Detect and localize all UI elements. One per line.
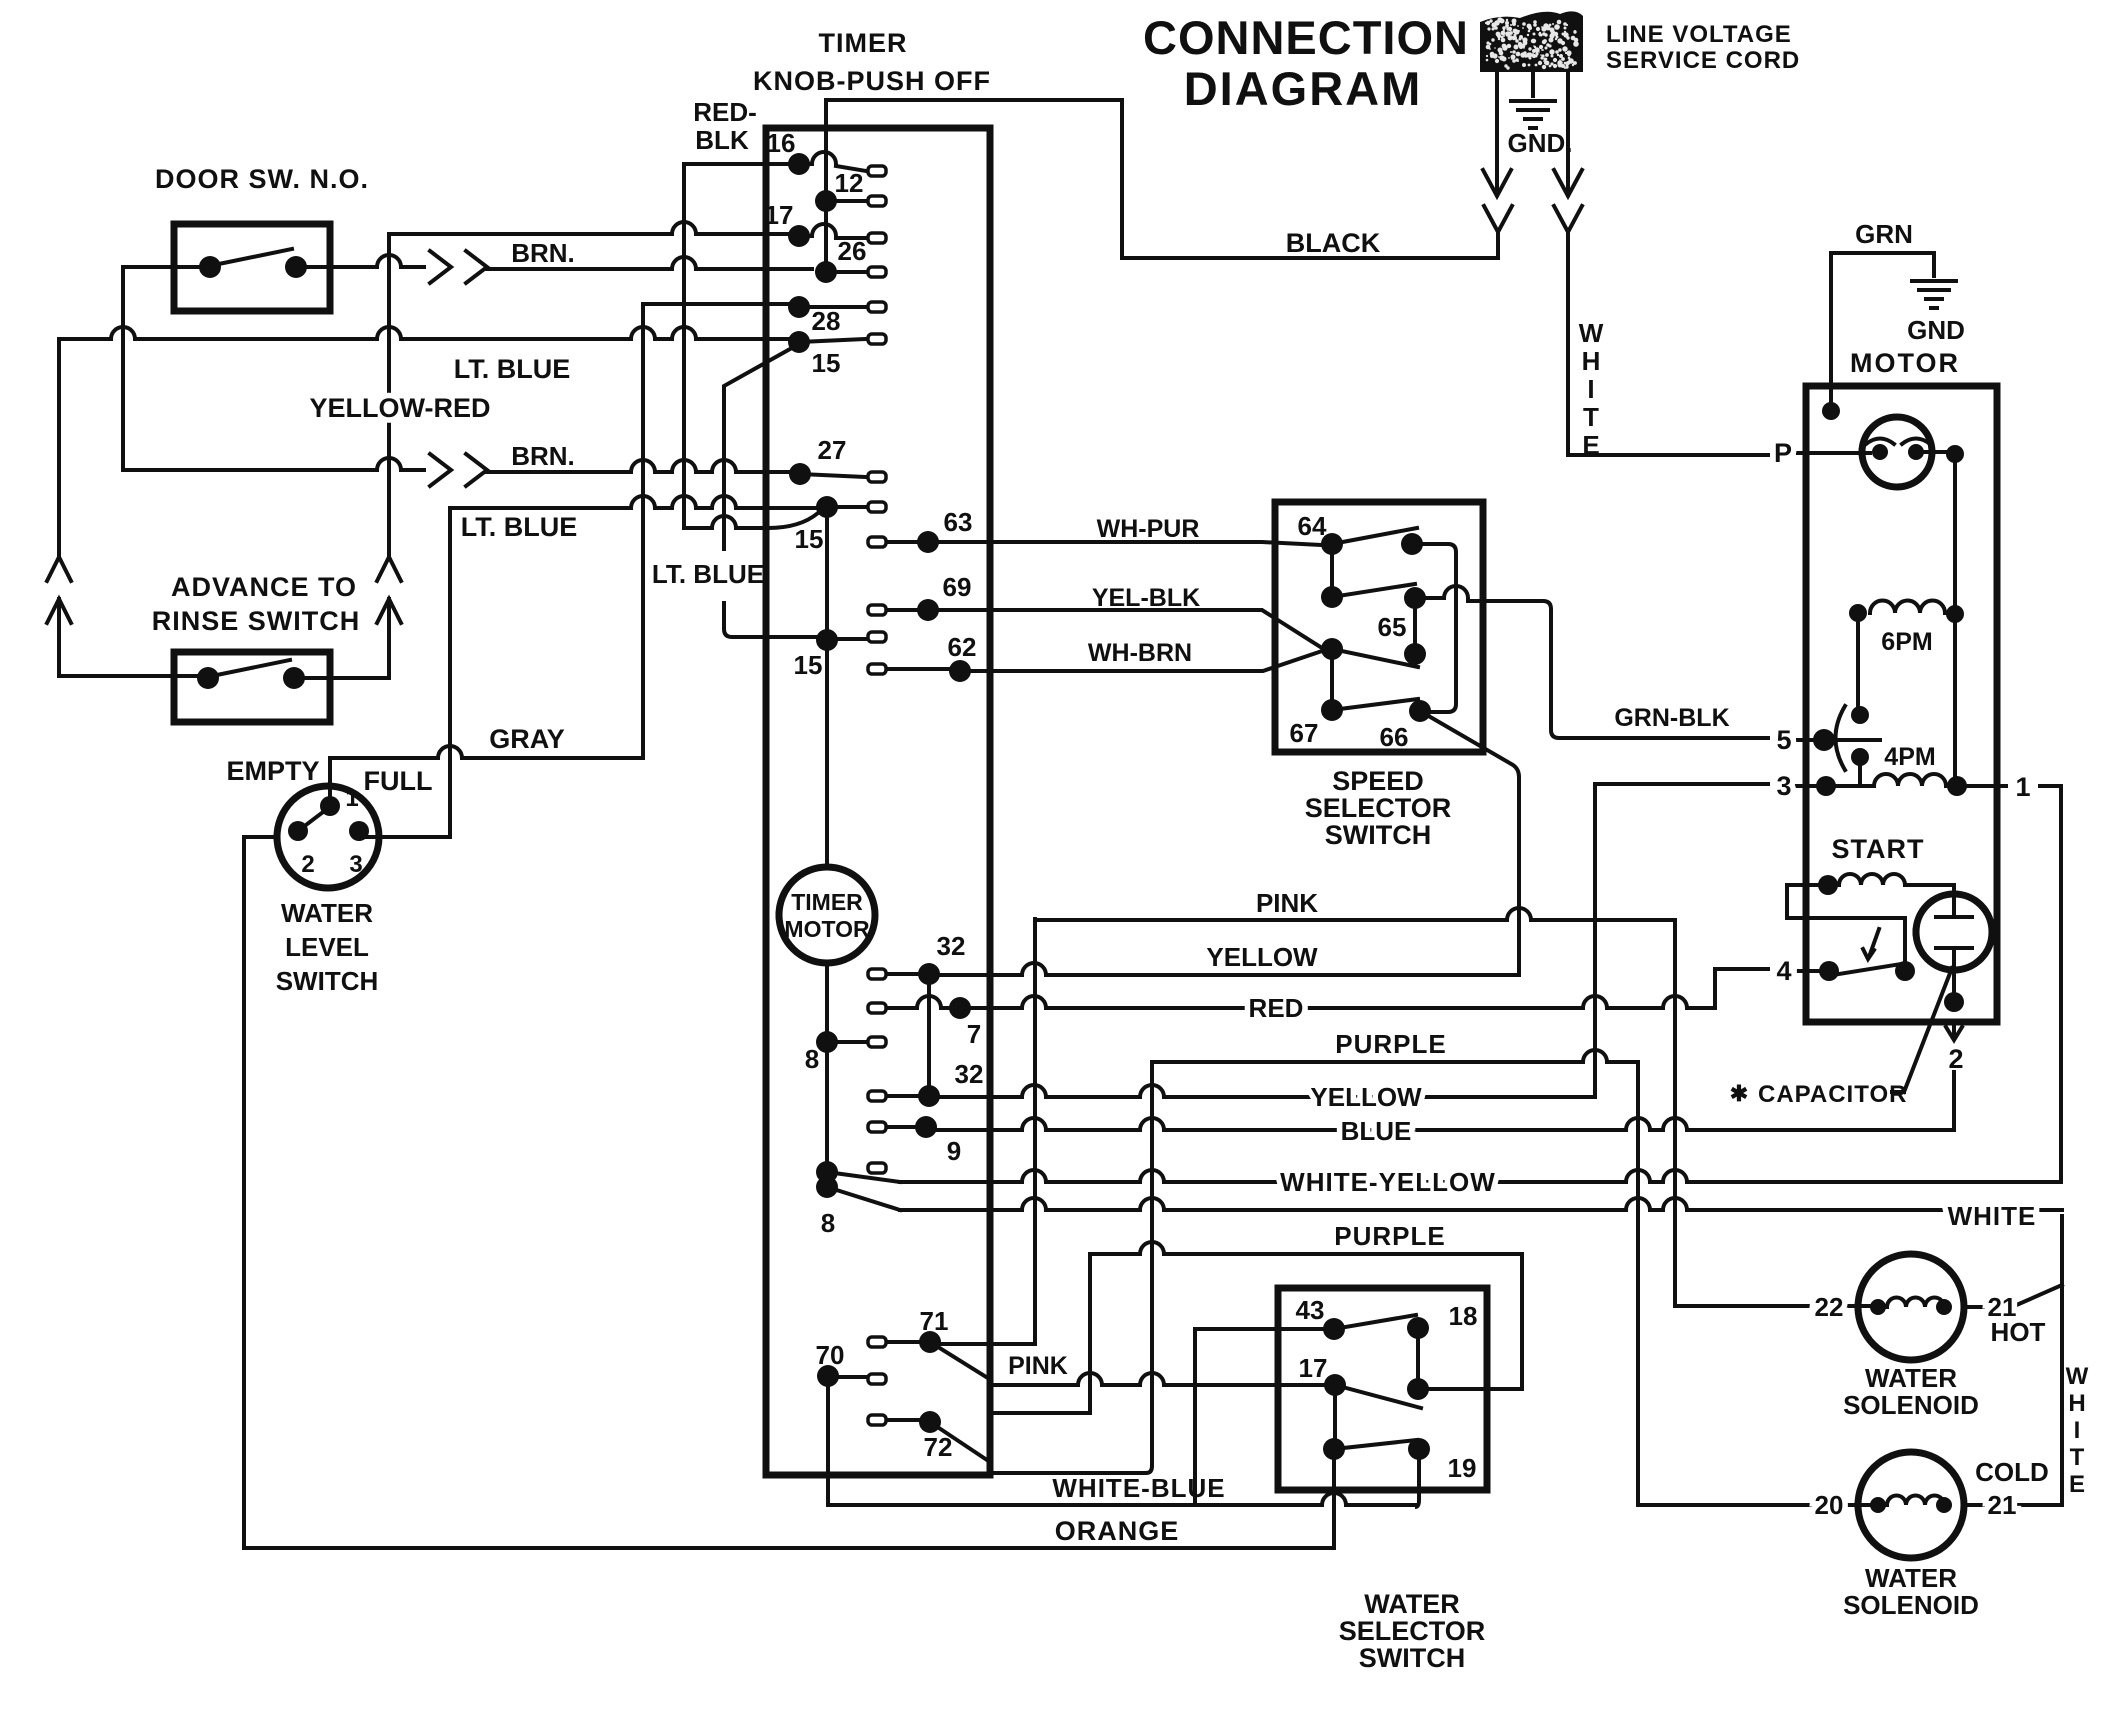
svg-text:3: 3 bbox=[1776, 771, 1791, 801]
svg-text:9: 9 bbox=[947, 1136, 961, 1166]
svg-text:1: 1 bbox=[2015, 772, 2030, 802]
svg-text:ORANGE: ORANGE bbox=[1055, 1516, 1180, 1546]
svg-text:I: I bbox=[1587, 374, 1594, 404]
svg-text:67: 67 bbox=[1290, 718, 1319, 748]
svg-text:BLACK: BLACK bbox=[1286, 228, 1381, 258]
svg-text:H: H bbox=[2068, 1390, 2085, 1417]
svg-text:SERVICE CORD: SERVICE CORD bbox=[1606, 47, 1800, 74]
svg-text:28: 28 bbox=[812, 306, 841, 336]
svg-text:RED: RED bbox=[1249, 993, 1304, 1023]
svg-text:PURPLE: PURPLE bbox=[1334, 1221, 1445, 1251]
svg-text:26: 26 bbox=[838, 236, 867, 266]
svg-text:SELECTOR: SELECTOR bbox=[1305, 793, 1452, 823]
svg-text:H: H bbox=[1582, 346, 1601, 376]
svg-text:2: 2 bbox=[301, 851, 314, 878]
svg-text:15: 15 bbox=[795, 524, 824, 554]
svg-text:66: 66 bbox=[1380, 722, 1409, 752]
svg-text:GND.: GND. bbox=[1508, 128, 1573, 158]
svg-text:SWITCH: SWITCH bbox=[276, 966, 379, 996]
svg-text:SPEED: SPEED bbox=[1332, 766, 1424, 796]
svg-text:BRN.: BRN. bbox=[511, 238, 575, 268]
svg-text:72: 72 bbox=[924, 1432, 953, 1462]
svg-text:RINSE SWITCH: RINSE SWITCH bbox=[152, 606, 361, 636]
svg-text:DIAGRAM: DIAGRAM bbox=[1184, 62, 1423, 115]
svg-text:32: 32 bbox=[937, 931, 966, 961]
svg-text:21: 21 bbox=[1988, 1292, 2017, 1322]
svg-text:62: 62 bbox=[948, 632, 977, 662]
svg-text:PINK: PINK bbox=[1008, 1352, 1068, 1380]
svg-text:TIMER: TIMER bbox=[791, 889, 863, 915]
svg-text:WATER: WATER bbox=[281, 898, 373, 928]
svg-text:GND: GND bbox=[1907, 315, 1965, 345]
svg-text:ADVANCE TO: ADVANCE TO bbox=[171, 572, 357, 602]
svg-text:DOOR SW. N.O.: DOOR SW. N.O. bbox=[155, 164, 369, 194]
svg-text:YELLOW: YELLOW bbox=[1310, 1082, 1422, 1112]
svg-text:LT. BLUE: LT. BLUE bbox=[461, 512, 578, 542]
svg-text:BRN.: BRN. bbox=[511, 441, 575, 471]
svg-text:27: 27 bbox=[818, 435, 847, 465]
svg-text:8: 8 bbox=[821, 1208, 835, 1238]
svg-text:PURPLE: PURPLE bbox=[1335, 1029, 1446, 1059]
svg-text:BLUE: BLUE bbox=[1341, 1116, 1412, 1146]
svg-text:TIMER: TIMER bbox=[819, 28, 908, 58]
svg-text:32: 32 bbox=[955, 1059, 984, 1089]
svg-text:BLK: BLK bbox=[695, 125, 749, 155]
svg-text:LEVEL: LEVEL bbox=[285, 932, 369, 962]
svg-text:I: I bbox=[2074, 1417, 2081, 1444]
svg-text:4: 4 bbox=[1776, 956, 1791, 986]
svg-text:GRN-BLK: GRN-BLK bbox=[1614, 704, 1729, 732]
svg-text:SWITCH: SWITCH bbox=[1359, 1643, 1465, 1673]
svg-text:YELLOW-RED: YELLOW-RED bbox=[310, 393, 491, 423]
svg-text:PINK: PINK bbox=[1256, 888, 1318, 918]
svg-text:T: T bbox=[2070, 1444, 2085, 1471]
svg-text:E: E bbox=[1582, 430, 1599, 460]
svg-text:12: 12 bbox=[835, 168, 864, 198]
svg-text:21: 21 bbox=[1988, 1490, 2017, 1520]
svg-text:E: E bbox=[2069, 1471, 2085, 1498]
svg-text:WHITE-BLUE: WHITE-BLUE bbox=[1052, 1473, 1225, 1503]
svg-text:EMPTY: EMPTY bbox=[226, 756, 319, 786]
svg-text:GRN: GRN bbox=[1855, 219, 1913, 249]
svg-text:15: 15 bbox=[794, 650, 823, 680]
svg-text:MOTOR: MOTOR bbox=[784, 916, 870, 942]
svg-text:WH-PUR: WH-PUR bbox=[1097, 515, 1200, 543]
svg-text:64: 64 bbox=[1298, 511, 1327, 541]
svg-text:SWITCH: SWITCH bbox=[1325, 820, 1431, 850]
svg-text:22: 22 bbox=[1815, 1292, 1844, 1322]
svg-text:CONNECTION: CONNECTION bbox=[1143, 11, 1469, 64]
svg-text:69: 69 bbox=[943, 572, 972, 602]
svg-text:5: 5 bbox=[1776, 725, 1791, 755]
svg-text:2: 2 bbox=[1948, 1044, 1963, 1074]
svg-text:18: 18 bbox=[1449, 1301, 1478, 1331]
svg-text:CAPACITOR: CAPACITOR bbox=[1758, 1081, 1907, 1108]
svg-text:FULL: FULL bbox=[364, 766, 433, 796]
svg-text:SOLENOID: SOLENOID bbox=[1843, 1390, 1979, 1420]
svg-text:WH-BRN: WH-BRN bbox=[1088, 639, 1192, 667]
svg-text:WHITE: WHITE bbox=[1948, 1201, 2037, 1231]
svg-text:WATER: WATER bbox=[1865, 1363, 1957, 1393]
svg-text:17: 17 bbox=[765, 200, 794, 230]
svg-text:SOLENOID: SOLENOID bbox=[1843, 1590, 1979, 1620]
svg-text:4PM: 4PM bbox=[1884, 743, 1935, 771]
svg-text:MOTOR: MOTOR bbox=[1850, 348, 1960, 378]
svg-text:KNOB-PUSH OFF: KNOB-PUSH OFF bbox=[753, 66, 991, 96]
svg-text:19: 19 bbox=[1448, 1453, 1477, 1483]
svg-text:63: 63 bbox=[944, 507, 973, 537]
svg-text:8: 8 bbox=[805, 1044, 819, 1074]
svg-text:COLD: COLD bbox=[1975, 1457, 2049, 1487]
svg-text:T: T bbox=[1583, 402, 1599, 432]
svg-text:17: 17 bbox=[1299, 1353, 1328, 1383]
svg-text:P: P bbox=[1774, 438, 1792, 468]
svg-text:START: START bbox=[1832, 834, 1925, 864]
svg-text:16: 16 bbox=[767, 128, 796, 158]
svg-text:71: 71 bbox=[920, 1306, 949, 1336]
svg-text:W: W bbox=[1579, 318, 1604, 348]
svg-text:LINE VOLTAGE: LINE VOLTAGE bbox=[1606, 21, 1792, 48]
svg-text:SELECTOR: SELECTOR bbox=[1339, 1616, 1486, 1646]
svg-text:20: 20 bbox=[1815, 1490, 1844, 1520]
svg-text:WATER: WATER bbox=[1364, 1589, 1460, 1619]
svg-text:W: W bbox=[2066, 1363, 2089, 1390]
svg-text:YELLOW: YELLOW bbox=[1206, 942, 1318, 972]
svg-text:15: 15 bbox=[812, 348, 841, 378]
svg-text:6PM: 6PM bbox=[1881, 628, 1932, 656]
svg-text:RED-: RED- bbox=[693, 97, 757, 127]
svg-text:65: 65 bbox=[1378, 612, 1407, 642]
svg-text:70: 70 bbox=[816, 1340, 845, 1370]
svg-text:YEL-BLK: YEL-BLK bbox=[1092, 584, 1200, 612]
svg-text:WATER: WATER bbox=[1865, 1563, 1957, 1593]
svg-text:WHITE-YELLOW: WHITE-YELLOW bbox=[1280, 1167, 1496, 1197]
svg-text:LT. BLUE: LT. BLUE bbox=[454, 354, 571, 384]
svg-text:GRAY: GRAY bbox=[489, 724, 565, 754]
svg-text:43: 43 bbox=[1296, 1295, 1325, 1325]
svg-text:1: 1 bbox=[345, 785, 358, 812]
svg-text:3: 3 bbox=[349, 851, 362, 878]
svg-text:✱: ✱ bbox=[1730, 1081, 1748, 1106]
svg-text:LT. BLUE: LT. BLUE bbox=[652, 559, 764, 589]
svg-text:7: 7 bbox=[967, 1019, 981, 1049]
